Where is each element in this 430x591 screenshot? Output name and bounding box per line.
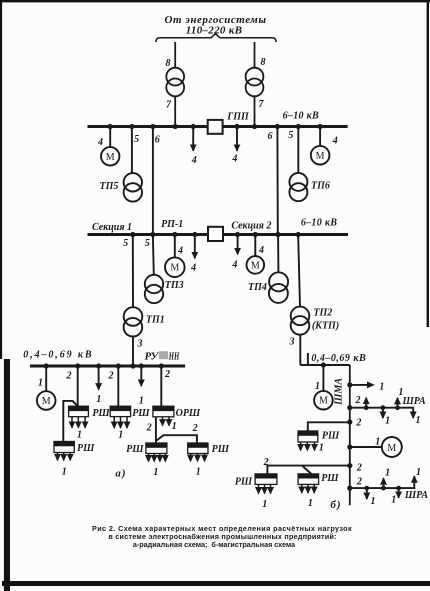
svg-text:2: 2 (146, 422, 152, 433)
svg-text:РШ: РШ (212, 444, 230, 455)
svg-text:(КТП): (КТП) (312, 321, 339, 332)
svg-text:3: 3 (137, 339, 143, 350)
svg-text:0,4–0,69 кВ: 0,4–0,69 кВ (23, 349, 93, 360)
svg-text:Секция 2: Секция 2 (231, 221, 271, 232)
svg-text:1: 1 (371, 496, 376, 507)
svg-text:РШ: РШ (126, 444, 144, 455)
svg-text:2: 2 (356, 463, 362, 474)
svg-text:1: 1 (385, 416, 390, 427)
svg-text:4: 4 (231, 154, 237, 165)
svg-text:8: 8 (166, 58, 171, 69)
svg-text:ТП2: ТП2 (313, 308, 332, 319)
svg-text:М: М (316, 151, 325, 162)
svg-text:4: 4 (332, 136, 338, 147)
svg-text:РП-1: РП-1 (161, 219, 183, 230)
svg-text:а-радиальная схема; б-магистр: а-радиальная схема; б-магистральная схем… (133, 540, 296, 549)
svg-text:1: 1 (391, 495, 396, 506)
svg-text:3: 3 (289, 337, 295, 348)
svg-text:2: 2 (164, 369, 170, 380)
svg-text:2: 2 (66, 370, 72, 381)
svg-text:1: 1 (379, 381, 384, 392)
svg-text:5: 5 (288, 130, 293, 141)
svg-text:ШРА: ШРА (404, 490, 428, 501)
svg-text:М: М (319, 396, 328, 407)
svg-text:4: 4 (190, 263, 196, 274)
svg-text:ТП4: ТП4 (248, 282, 267, 293)
svg-text:6: 6 (155, 135, 160, 146)
svg-text:1: 1 (153, 467, 158, 478)
svg-text:М: М (106, 152, 115, 163)
svg-text:4: 4 (231, 260, 237, 271)
svg-text:1: 1 (38, 378, 43, 389)
svg-text:1: 1 (196, 466, 201, 477)
svg-text:1: 1 (416, 467, 421, 478)
svg-text:1: 1 (375, 436, 380, 447)
svg-text:1: 1 (139, 395, 144, 406)
svg-text:РШ: РШ (235, 477, 253, 488)
svg-text:5: 5 (123, 238, 128, 249)
svg-text:2: 2 (356, 477, 362, 488)
svg-text:НН: НН (168, 350, 179, 362)
svg-text:М: М (387, 443, 396, 454)
svg-text:2: 2 (108, 370, 114, 381)
svg-text:1: 1 (308, 498, 313, 509)
svg-text:ШРА: ШРА (402, 396, 426, 407)
svg-text:4: 4 (258, 245, 264, 256)
svg-text:5: 5 (145, 238, 150, 249)
svg-text:ОРШ: ОРШ (176, 408, 201, 419)
svg-text:ТП6: ТП6 (311, 181, 330, 192)
svg-text:6–10 кВ: 6–10 кВ (301, 217, 337, 228)
svg-text:6: 6 (268, 131, 273, 142)
svg-text:8: 8 (261, 57, 266, 68)
svg-text:1: 1 (262, 499, 267, 510)
svg-text:а): а) (115, 468, 126, 480)
svg-text:РШ: РШ (322, 431, 340, 442)
svg-text:ТП1: ТП1 (146, 315, 165, 326)
svg-text:4: 4 (177, 246, 183, 257)
svg-text:РШ: РШ (77, 443, 95, 454)
svg-text:ТП3: ТП3 (165, 280, 184, 291)
svg-text:М: М (170, 263, 179, 274)
svg-text:5: 5 (134, 134, 139, 145)
svg-text:б): б) (330, 499, 341, 511)
svg-text:1: 1 (385, 468, 390, 479)
svg-text:1: 1 (96, 394, 101, 405)
svg-text:2: 2 (355, 395, 361, 406)
svg-text:Секция 1: Секция 1 (92, 222, 132, 233)
svg-text:1: 1 (62, 467, 67, 478)
svg-text:1: 1 (319, 443, 324, 454)
svg-text:6–10 кВ: 6–10 кВ (283, 111, 319, 122)
svg-text:2: 2 (355, 418, 361, 429)
svg-text:РШ: РШ (132, 408, 150, 419)
svg-text:1: 1 (118, 430, 123, 441)
svg-text:1: 1 (172, 421, 177, 432)
svg-text:М: М (42, 396, 51, 407)
svg-text:2: 2 (192, 423, 198, 434)
svg-text:ШМА: ШМА (334, 378, 345, 406)
svg-text:2: 2 (263, 457, 269, 468)
svg-text:1: 1 (315, 381, 320, 392)
svg-text:4: 4 (191, 155, 197, 166)
svg-text:1: 1 (77, 430, 82, 441)
svg-text:0,4–0,69 кВ: 0,4–0,69 кВ (311, 353, 366, 364)
svg-text:ГПП: ГПП (226, 112, 250, 123)
svg-text:РШ: РШ (321, 473, 339, 484)
svg-text:ТП5: ТП5 (100, 181, 119, 192)
svg-text:РШ: РШ (92, 408, 110, 419)
svg-text:М: М (251, 260, 260, 271)
svg-text:РУ: РУ (145, 350, 160, 362)
svg-text:1: 1 (416, 415, 421, 426)
svg-text:4: 4 (97, 137, 103, 148)
